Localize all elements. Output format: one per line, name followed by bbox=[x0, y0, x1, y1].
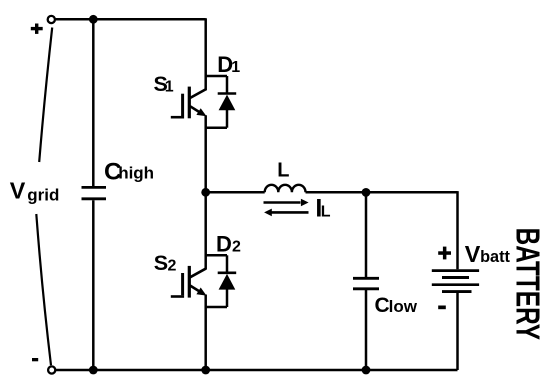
wire inductor to battery branch bbox=[306, 191, 458, 194]
wire D1 lower bbox=[226, 110, 229, 128]
node junction dot top (Chigh tap) bbox=[89, 15, 98, 24]
wire Chigh branch upper bbox=[92, 19, 95, 186]
label D2 bbox=[216, 232, 241, 257]
wire D1 top branch bbox=[205, 75, 227, 78]
source Vgrid arc upper bbox=[39, 28, 52, 163]
label Vgrid bbox=[10, 177, 60, 204]
svg-text:L: L bbox=[321, 203, 331, 220]
wire D1 bottom branch bbox=[205, 126, 227, 129]
svg-text:2: 2 bbox=[168, 257, 177, 274]
node junction dot bottom S2 bbox=[201, 366, 210, 375]
wire Clow lower bbox=[365, 290, 368, 370]
wire D2 bottom branch bbox=[205, 306, 227, 309]
arrow IL left bbox=[264, 209, 308, 217]
svg-text:low: low bbox=[389, 297, 418, 316]
diode D2 bbox=[218, 273, 237, 290]
node junction dot bottom Clow bbox=[362, 366, 371, 375]
label D1 bbox=[217, 52, 240, 77]
battery Vbatt bbox=[432, 271, 479, 292]
wire S2 emitter to bottom rail bbox=[204, 295, 207, 371]
arrow IL right bbox=[264, 199, 309, 207]
wire bottom rail bbox=[56, 369, 458, 372]
wire S1 collector from top rail bbox=[204, 18, 207, 90]
node junction dot Clow tap bbox=[362, 188, 371, 197]
svg-text:C: C bbox=[375, 294, 390, 317]
wire S1 emitter to mid node bbox=[204, 115, 207, 192]
svg-text:high: high bbox=[118, 164, 154, 183]
node mid junction dot (phase node) bbox=[201, 188, 210, 197]
wire mid node to S2 collector bbox=[204, 192, 207, 269]
wire D2 lower bbox=[226, 289, 229, 307]
svg-text:L: L bbox=[277, 159, 289, 181]
label - (Vgrid negative) bbox=[32, 358, 38, 361]
label S2 bbox=[154, 251, 177, 275]
label IL bbox=[315, 194, 330, 222]
label + (battery positive) bbox=[438, 247, 451, 260]
transistor Q S2 (IGBT) bbox=[171, 266, 207, 298]
inductor L bbox=[265, 185, 306, 192]
diode D1 bbox=[218, 94, 237, 111]
svg-text:grid: grid bbox=[27, 185, 59, 204]
wire top rail bbox=[55, 18, 206, 21]
wire D2 top branch bbox=[205, 254, 227, 257]
node junction dot bottom Chigh bbox=[89, 366, 98, 375]
wire battery branch upper bbox=[456, 191, 459, 269]
label + (Vgrid positive) bbox=[31, 24, 43, 34]
svg-text:S: S bbox=[154, 251, 168, 275]
wire battery branch lower bbox=[456, 293, 459, 370]
transistor Q S1 (IGBT) bbox=[171, 87, 207, 119]
svg-text:1: 1 bbox=[165, 78, 174, 95]
svg-text:2: 2 bbox=[232, 239, 241, 256]
svg-text:1: 1 bbox=[231, 59, 240, 76]
label Chigh bbox=[104, 158, 154, 185]
svg-text:D: D bbox=[216, 232, 232, 257]
svg-text:BATTERY: BATTERY bbox=[508, 228, 546, 341]
wire D1 upper bbox=[226, 76, 229, 94]
svg-text:V: V bbox=[465, 241, 481, 267]
svg-text:V: V bbox=[10, 177, 26, 203]
label Vbatt bbox=[465, 241, 511, 267]
svg-text:batt: batt bbox=[480, 248, 510, 266]
capacitor Clow bbox=[353, 278, 379, 289]
wire D2 upper bbox=[226, 255, 229, 272]
label - (battery negative) bbox=[438, 306, 446, 310]
source Vgrid arc lower bbox=[36, 214, 51, 365]
capacitor Chigh bbox=[82, 187, 107, 198]
node - terminal bottom-left (open circle) bbox=[48, 366, 55, 373]
wire mid node to inductor bbox=[206, 191, 265, 194]
wire Chigh branch lower bbox=[92, 200, 95, 370]
label Clow bbox=[375, 294, 418, 317]
label S1 bbox=[154, 72, 174, 96]
node + terminal top-left (open circle) bbox=[48, 16, 55, 23]
wire Clow upper bbox=[365, 192, 368, 277]
